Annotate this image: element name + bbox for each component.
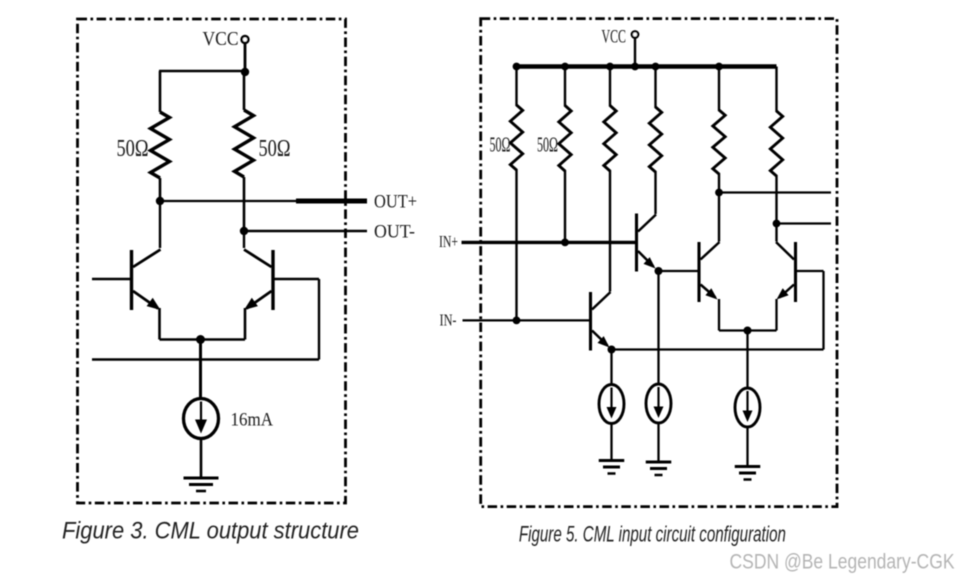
svg-text:Figure 5. CML input circuit co: Figure 5. CML input circuit configuratio…	[519, 522, 786, 547]
svg-text:CSDN @Be Legendary-CGK: CSDN @Be Legendary-CGK	[730, 550, 956, 574]
svg-text:50Ω: 50Ω	[490, 133, 511, 157]
svg-text:OUT-: OUT-	[374, 222, 415, 243]
svg-text:50Ω: 50Ω	[117, 136, 149, 162]
svg-text:50Ω: 50Ω	[259, 136, 291, 162]
svg-text:VCC: VCC	[602, 27, 627, 48]
svg-text:Figure 3. CML output structure: Figure 3. CML output structure	[62, 518, 359, 545]
svg-text:50Ω: 50Ω	[537, 133, 558, 157]
svg-text:VCC: VCC	[203, 28, 239, 50]
svg-text:IN+: IN+	[439, 232, 458, 251]
svg-text:IN-: IN-	[440, 311, 457, 330]
svg-text:OUT+: OUT+	[374, 192, 417, 213]
svg-text:16mA: 16mA	[231, 410, 274, 431]
